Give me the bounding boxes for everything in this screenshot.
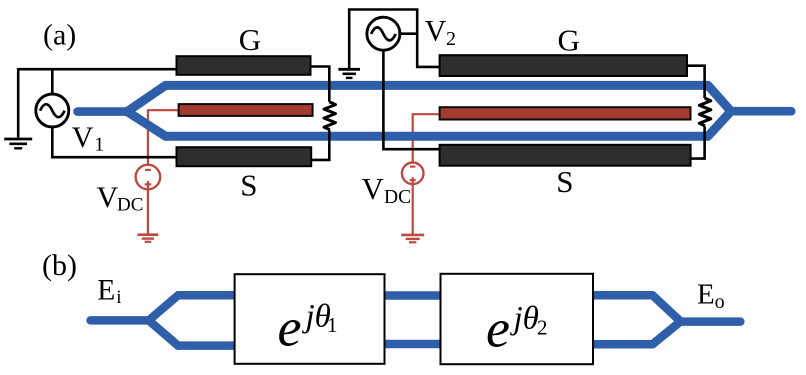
wire G2 right to resistor	[686, 66, 705, 98]
label e^(j theta 1)	[278, 298, 338, 358]
label G (modulator 1)	[239, 22, 261, 57]
wire resistor to S1 right	[311, 130, 330, 160]
svg-text:DC: DC	[117, 194, 143, 215]
waveguide combiner upper diagonal (a)	[708, 85, 731, 111]
waveguide splitter lower diagonal (a)	[128, 112, 166, 136]
waveguide upper arm into box 1 (b)	[177, 291, 237, 300]
label Eo	[697, 279, 725, 313]
waveguide lower arm after box 2 (b)	[592, 340, 654, 349]
waveguide input stem (a)	[78, 107, 129, 116]
label e^(j theta 2)	[486, 299, 548, 359]
ground (red, VDC1)	[137, 235, 158, 242]
label S (modulator 1)	[240, 167, 257, 202]
label (b)	[42, 249, 77, 282]
DC source VDC1 (red)	[136, 165, 161, 190]
svg-text:1: 1	[94, 134, 104, 156]
label V2	[425, 15, 456, 51]
label VDC (modulator 1)	[97, 181, 144, 215]
wire V2 bottom to S2	[383, 50, 440, 149]
DC source VDC2 (red)	[402, 163, 424, 185]
waveguide upper arm (a)	[165, 81, 710, 90]
label Ei	[97, 274, 121, 308]
svg-text:DC: DC	[384, 187, 411, 208]
wire V1 top horizontal to G1	[18, 68, 177, 71]
waveguide splitter upper diagonal (a)	[128, 85, 166, 111]
waveguide output stem (a)	[731, 107, 792, 116]
waveguide lower arm between boxes (b)	[383, 340, 442, 349]
phase shifter box 1	[235, 274, 385, 364]
resistor R2	[699, 98, 711, 126]
wire VDC1 to center electrode (red)	[148, 110, 180, 165]
waveguide splitter lower diagonal (b)	[149, 321, 178, 346]
waveguide output stem (b)	[680, 317, 740, 326]
svg-text:V: V	[72, 121, 94, 154]
wire G1 right to resistor	[310, 67, 330, 102]
label VDC (modulator 2)	[362, 171, 412, 208]
wire V1 bottom to S1	[52, 127, 177, 158]
label G (modulator 2)	[558, 22, 580, 57]
svg-text:2: 2	[537, 316, 548, 340]
wire V2 top loop	[349, 10, 440, 69]
electrode G (modulator 1)	[177, 56, 311, 75]
wire left vertical to ground	[17, 68, 20, 138]
AC source V1	[36, 94, 69, 127]
ground (red, VDC2)	[401, 235, 424, 242]
label V1	[72, 121, 105, 156]
waveguide input stem (b)	[91, 316, 151, 325]
ground (black, left of V1)	[4, 139, 32, 148]
svg-text:e: e	[278, 298, 302, 358]
wire resistor to S2 right	[690, 126, 705, 158]
svg-text:(a): (a)	[43, 19, 76, 52]
label (a)	[43, 19, 76, 52]
svg-text:S: S	[240, 167, 257, 202]
svg-text:S: S	[556, 164, 573, 199]
waveguide upper arm after box 2 (b)	[592, 291, 654, 300]
waveguide upper arm between boxes (b)	[383, 291, 442, 300]
svg-text:V: V	[362, 171, 385, 206]
center electrode (modulator 2, red)	[440, 107, 691, 119]
center electrode (modulator 1, red)	[179, 104, 313, 116]
waveguide combiner upper diagonal (b)	[653, 295, 681, 321]
AC source V2	[367, 17, 400, 50]
wire VDC1 to ground (red)	[147, 189, 149, 234]
svg-text:e: e	[486, 299, 510, 359]
label S (modulator 2)	[556, 164, 573, 199]
electrode S (modulator 2)	[440, 145, 691, 166]
svg-text:G: G	[239, 22, 261, 57]
waveguide combiner lower diagonal (a)	[708, 111, 731, 136]
waveguide lower arm into box 1 (b)	[177, 341, 237, 350]
wire V2 right connector	[400, 32, 417, 35]
svg-text:(b): (b)	[42, 249, 77, 282]
svg-text:V: V	[425, 15, 447, 48]
phase shifter box 2	[441, 274, 594, 364]
svg-text:V: V	[97, 181, 119, 214]
wire VDC2 to center electrode 2 (red)	[413, 114, 440, 163]
waveguide lower arm (a)	[165, 132, 710, 141]
electrode G (modulator 2)	[440, 55, 687, 76]
resistor R1	[324, 102, 336, 130]
wire V1 top lead	[51, 69, 54, 94]
svg-text:i: i	[116, 287, 121, 308]
electrode S (modulator 1)	[177, 147, 312, 166]
svg-text:2: 2	[446, 28, 456, 50]
waveguide splitter upper diagonal (b)	[149, 295, 178, 320]
svg-text:jθ: jθ	[510, 301, 539, 337]
svg-text:1: 1	[327, 313, 338, 337]
svg-text:G: G	[558, 22, 580, 57]
waveguide combiner lower diagonal (b)	[653, 321, 681, 344]
ground (black, V2)	[338, 69, 360, 78]
svg-text:E: E	[697, 279, 715, 311]
svg-text:E: E	[97, 274, 115, 306]
svg-text:o: o	[715, 291, 725, 313]
wire VDC2 to ground (red)	[412, 184, 414, 235]
